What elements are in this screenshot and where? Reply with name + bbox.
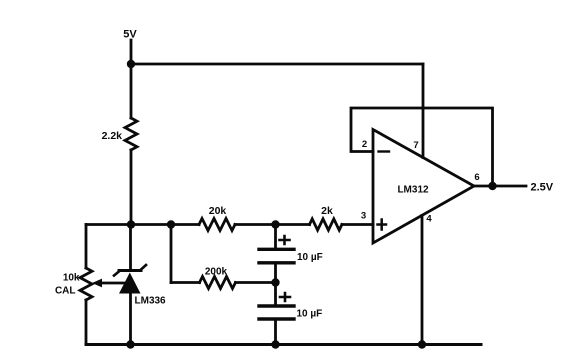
wire: LM336 top lead [129, 225, 132, 271]
svg-text:LM312: LM312 [397, 185, 429, 196]
wire: 5V stub down to top of 2.2k [130, 40, 133, 118]
svg-text:2k: 2k [321, 205, 333, 217]
op-amp U1 LM312 [373, 130, 474, 244]
wire: pin 4 drop to ground rail [421, 216, 424, 345]
node: cap column on rail [271, 340, 279, 348]
potentiometer 10k CAL [80, 268, 92, 300]
pot wiper arrow [92, 279, 102, 288]
wire: pot column bottom [85, 300, 88, 345]
svg-text:3: 3 [361, 211, 366, 222]
wire: 2.2k bottom to mid rail [130, 150, 133, 225]
resistor 2k [310, 219, 342, 230]
node: output junction [488, 182, 496, 190]
svg-text:CAL: CAL [55, 286, 76, 297]
wire: V+ drop to pin 7 [422, 64, 425, 158]
node: 200k branch junction [167, 220, 175, 228]
node: 5V junction [127, 60, 135, 68]
svg-text:20k: 20k [209, 205, 227, 217]
svg-text:6: 6 [474, 172, 479, 183]
wire: cap column top [274, 225, 277, 249]
svg-text:2.2k: 2.2k [102, 130, 123, 142]
wire: 2k to pin 3 [342, 223, 373, 226]
wire: LM336 bottom lead [129, 294, 132, 345]
capacitor C1 10uF [259, 248, 294, 251]
svg-text:LM336: LM336 [135, 296, 167, 307]
wire: top rail to op-amp V+ [131, 63, 423, 66]
wire: between caps [274, 263, 277, 306]
minus sign at pin 2 [379, 150, 390, 152]
wire: cap column bottom [274, 319, 277, 345]
svg-text:10 µF: 10 µF [297, 309, 323, 320]
node: 2.2k / LM336 junction [127, 220, 135, 228]
node: cap mid junction [271, 278, 279, 286]
wire: 200k to cap mid junction [236, 281, 276, 284]
resistor 2.2k [125, 118, 137, 150]
svg-text:4: 4 [426, 214, 432, 225]
svg-text:10k: 10k [63, 273, 80, 284]
svg-text:10 µF: 10 µF [297, 252, 323, 263]
resistor 200k [200, 277, 236, 289]
wire: 200k branch vertical [170, 225, 173, 283]
svg-text:2: 2 [362, 139, 367, 150]
wire: branch to 200k [171, 281, 200, 284]
resistor 20k [199, 219, 235, 231]
svg-text:200k: 200k [205, 267, 228, 278]
node: LM336 on rail [126, 340, 134, 348]
wire: pot column top [85, 225, 88, 269]
wire: between 20k and 2k [235, 223, 310, 226]
wire: mid rail from pot top to 20k [86, 223, 199, 226]
svg-text:2.5V: 2.5V [531, 182, 554, 194]
wire: op-amp output [474, 185, 526, 188]
diode LM336 (reference) [114, 265, 146, 294]
node: pin 4 on rail [418, 340, 426, 348]
ground rail [86, 343, 481, 346]
plus sign at pin 3 [378, 220, 387, 230]
svg-text:7: 7 [413, 140, 418, 151]
wire: feedback loop pin2 to pin6 [351, 108, 493, 186]
node: cap1 top junction [271, 220, 279, 228]
capacitor C2 10uF [259, 304, 294, 307]
